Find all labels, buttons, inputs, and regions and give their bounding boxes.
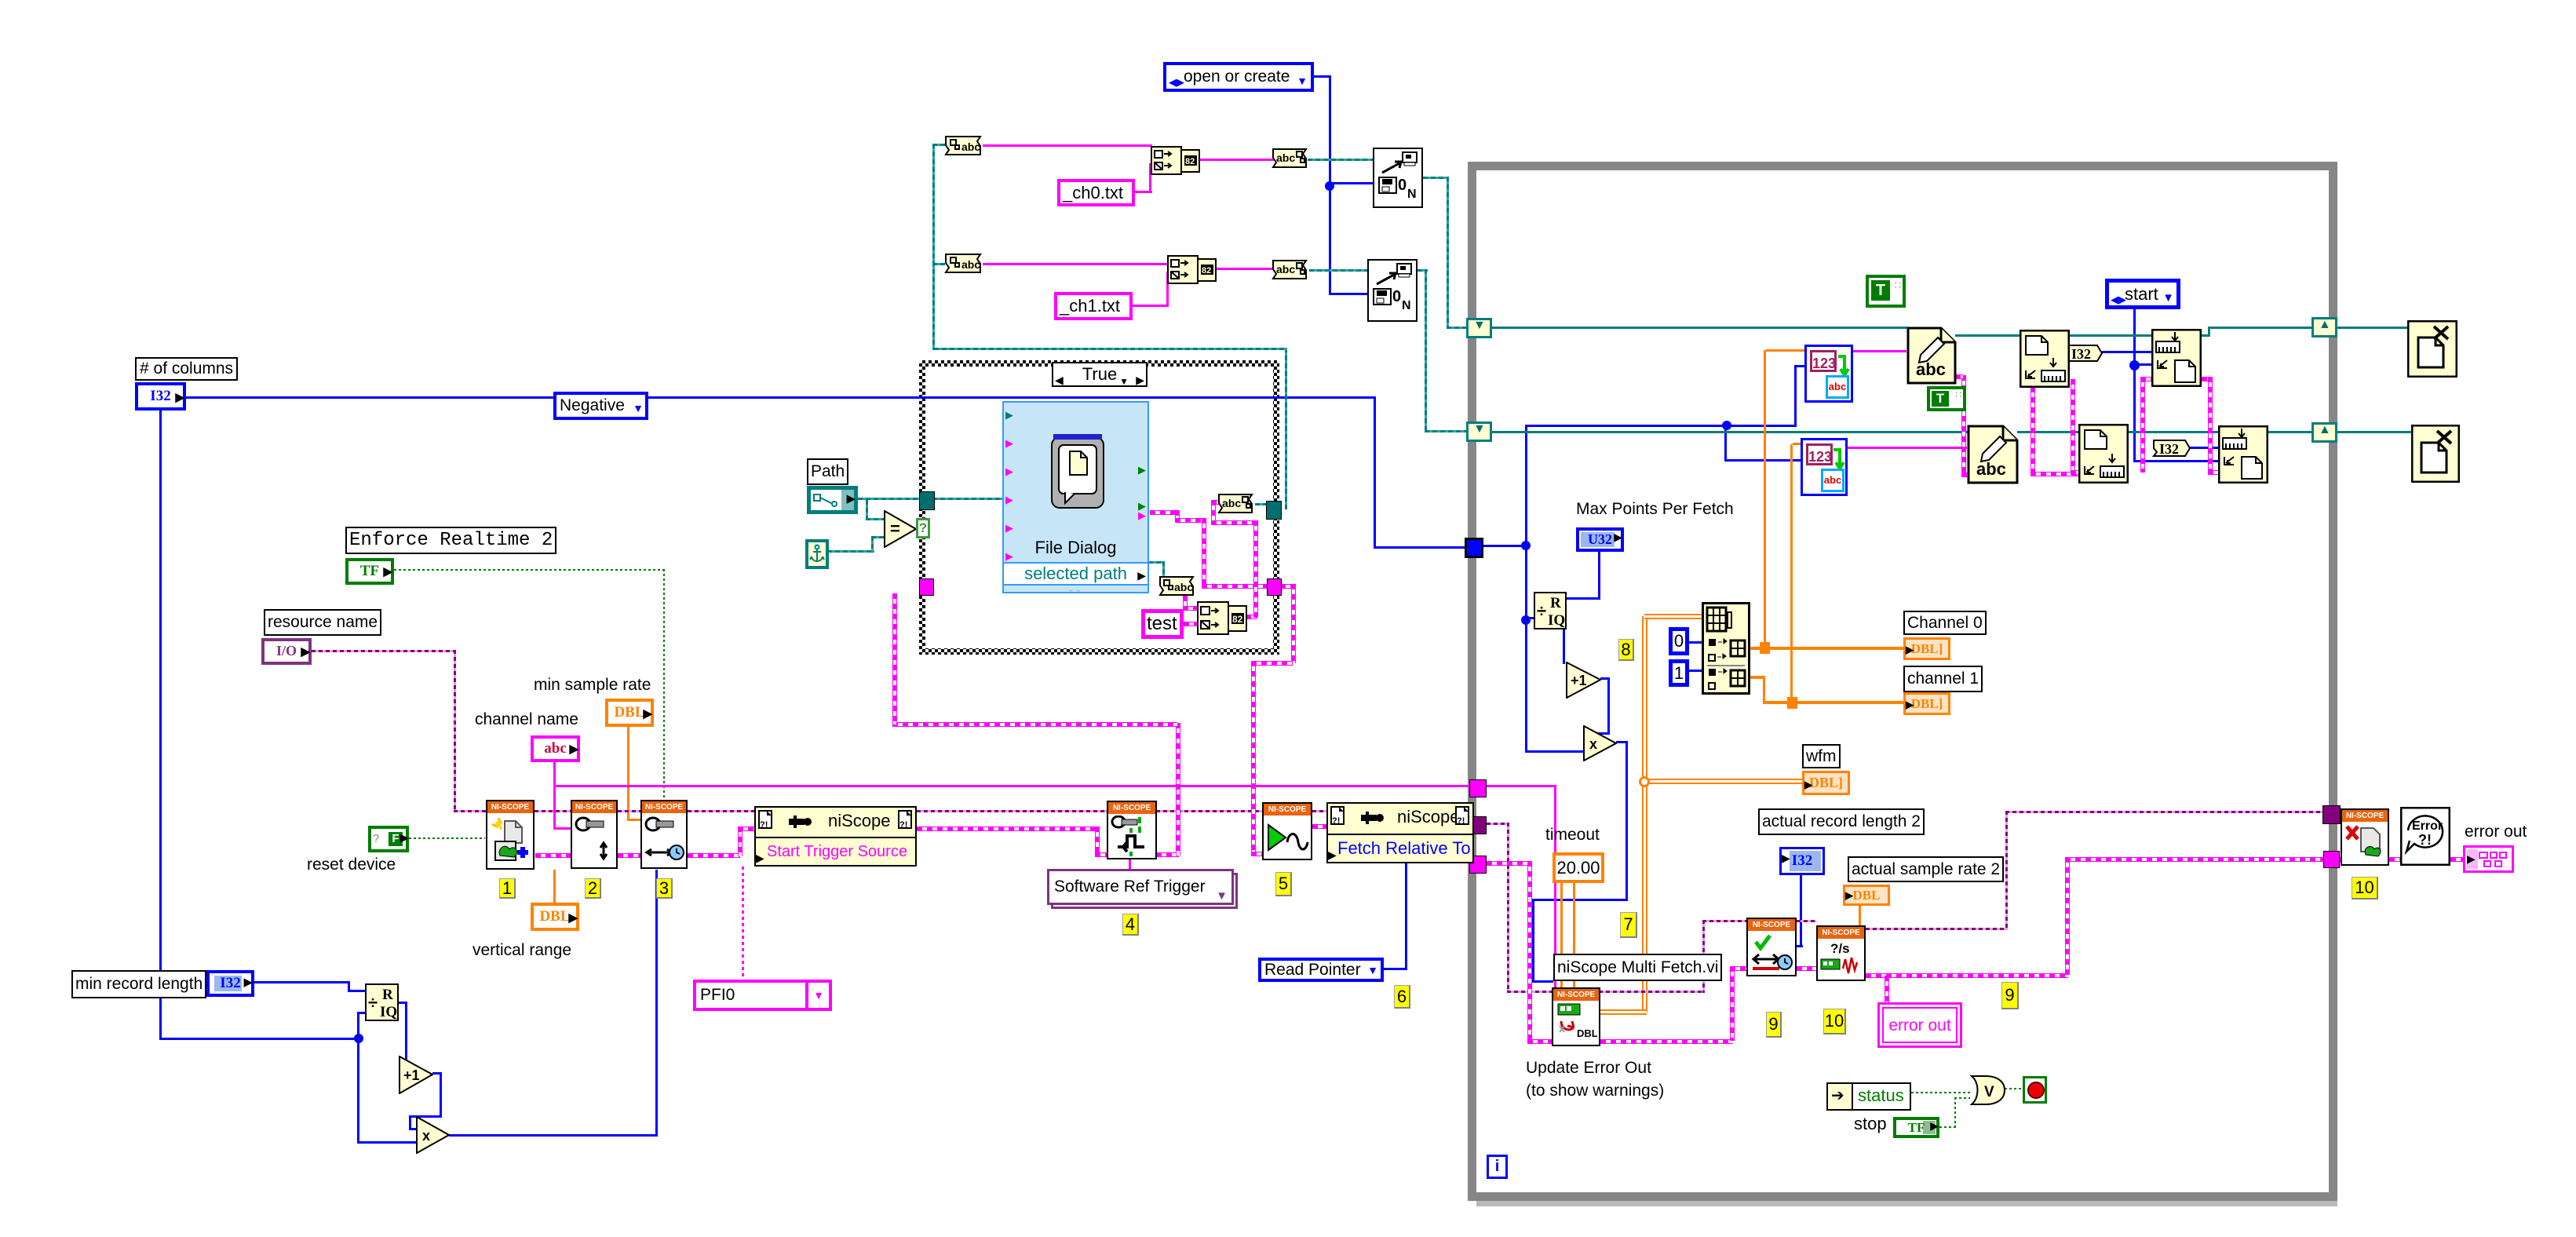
svg-text:abc: abc: [1976, 459, 2006, 479]
svg-text:+1: +1: [403, 1067, 420, 1083]
svg-text:abc: abc: [1276, 263, 1295, 275]
svg-text:+1: +1: [1571, 673, 1587, 688]
svg-text:R: R: [382, 987, 393, 1003]
svg-text:abc: abc: [1222, 497, 1241, 509]
svg-text:82: 82: [1185, 157, 1195, 166]
svg-text:I32: I32: [2159, 441, 2179, 457]
svg-text:IQ: IQ: [1548, 612, 1565, 629]
svg-text:IQ: IQ: [380, 1004, 397, 1020]
svg-text:abc: abc: [1276, 151, 1295, 164]
svg-text:N: N: [1402, 299, 1411, 312]
svg-text:abc: abc: [961, 140, 980, 153]
svg-text:V: V: [1984, 1084, 1994, 1100]
svg-text:÷: ÷: [1537, 601, 1546, 621]
svg-text:=: =: [890, 519, 900, 538]
svg-text:I32: I32: [2071, 346, 2091, 362]
svg-text:R: R: [1550, 595, 1561, 611]
svg-text:?!: ?!: [899, 820, 907, 830]
svg-text:x: x: [1589, 736, 1597, 752]
svg-text:DBL: DBL: [1577, 1027, 1597, 1039]
svg-text:?!: ?!: [760, 820, 768, 830]
svg-text:N: N: [1407, 188, 1417, 201]
svg-text:Error: Error: [2412, 819, 2443, 833]
svg-text:÷: ÷: [368, 993, 378, 1013]
svg-text:abc: abc: [961, 258, 980, 271]
svg-text:0: 0: [1392, 288, 1401, 305]
svg-text:?/s: ?/s: [1830, 941, 1850, 956]
svg-text:?!: ?!: [1457, 816, 1465, 826]
svg-text:abc: abc: [1916, 359, 1946, 379]
svg-text:82: 82: [1232, 614, 1243, 625]
svg-text:x: x: [422, 1128, 430, 1144]
svg-text:0: 0: [1398, 177, 1407, 194]
svg-text:82: 82: [1202, 266, 1211, 275]
svg-text:abc: abc: [1174, 581, 1193, 593]
svg-text:?!: ?!: [1332, 816, 1340, 826]
svg-text:?!: ?!: [2418, 832, 2432, 848]
